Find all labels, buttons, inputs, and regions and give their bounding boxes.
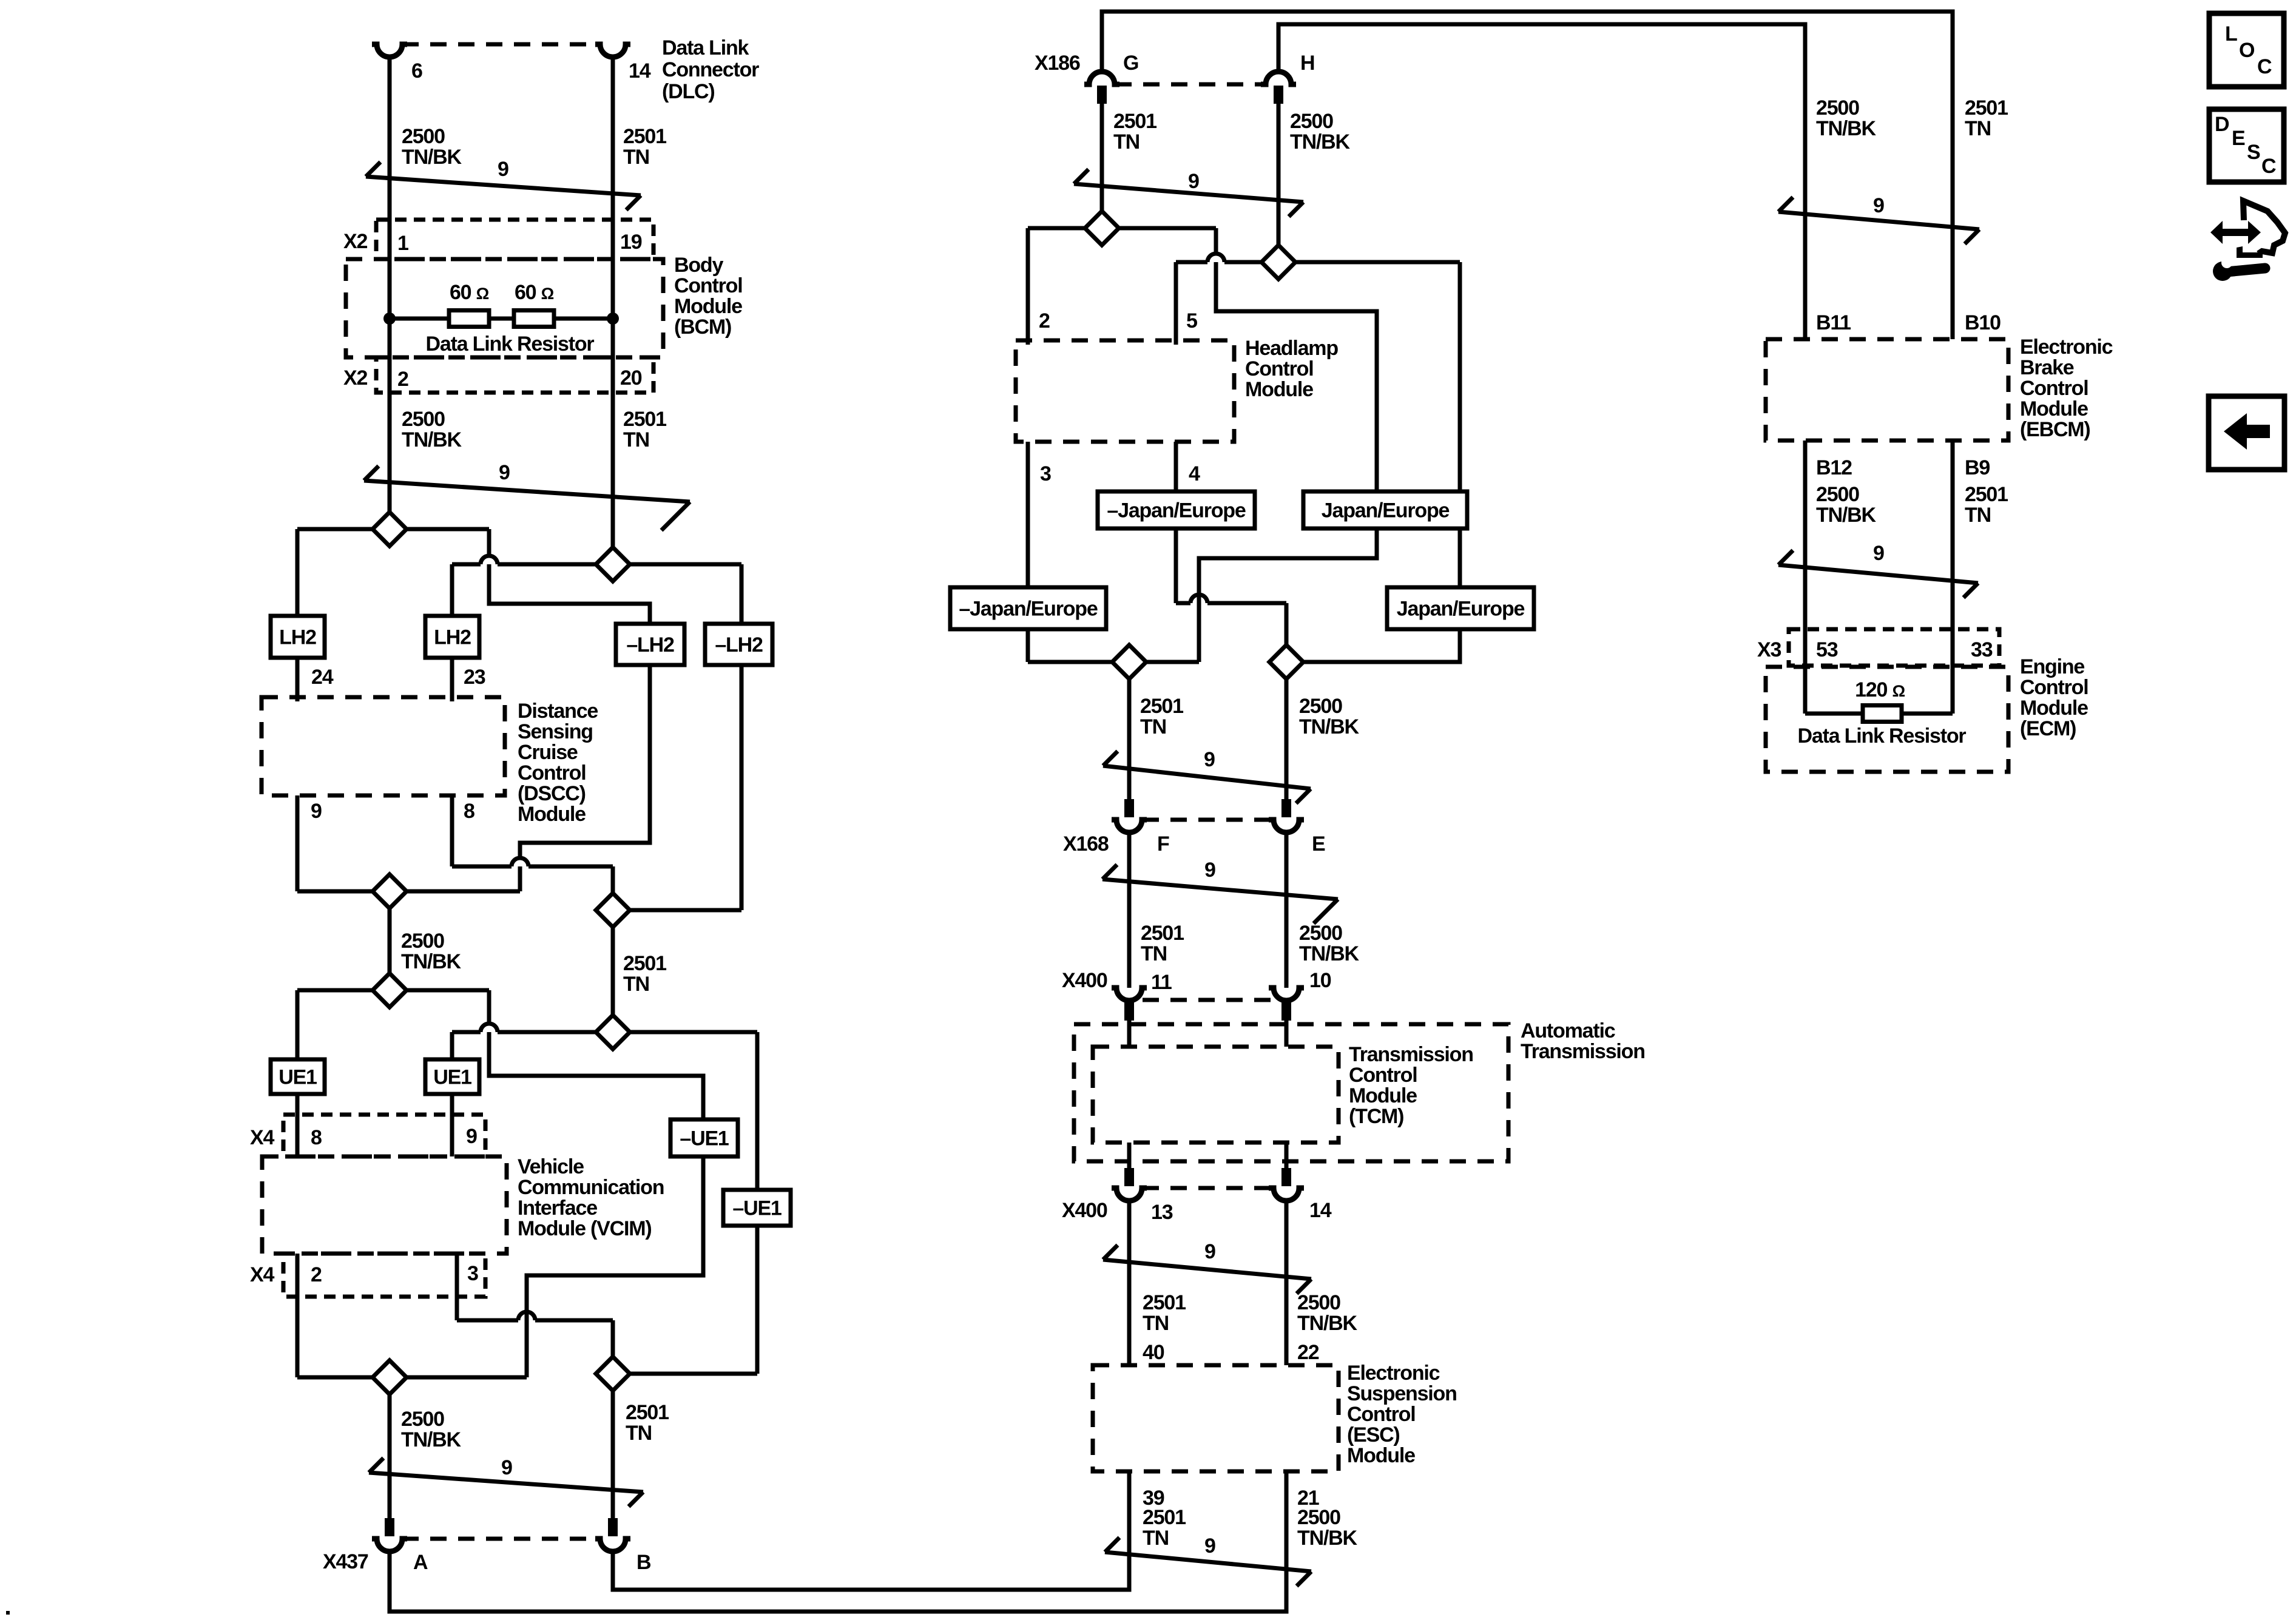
svg-text:L: L [2225,22,2237,46]
svg-text:2500: 2500 [401,930,444,953]
svg-text:9: 9 [498,158,508,181]
svg-text:9: 9 [311,800,322,823]
svg-text:X437: X437 [323,1550,368,1573]
svg-text:Module: Module [1349,1084,1417,1107]
svg-text:23: 23 [464,666,485,689]
svg-text:8: 8 [311,1126,322,1149]
svg-text:Body: Body [674,254,723,277]
svg-text:O: O [2239,39,2255,62]
svg-text:(BCM): (BCM) [674,316,731,339]
svg-text:Transmission: Transmission [1349,1043,1473,1066]
svg-text:–UE1: –UE1 [732,1197,782,1220]
svg-text:3: 3 [467,1262,478,1285]
svg-text:X2: X2 [343,366,367,390]
svg-text:Module: Module [518,803,586,826]
svg-text:20: 20 [620,366,642,390]
svg-text:TN/BK: TN/BK [1290,130,1351,154]
svg-text:40: 40 [1143,1341,1164,1364]
svg-text:2500: 2500 [402,408,445,431]
svg-text:TN/BK: TN/BK [1297,1312,1358,1335]
svg-text:X168: X168 [1063,832,1109,856]
svg-text:19: 19 [620,231,642,254]
svg-text:14: 14 [629,59,651,83]
svg-text:TN/BK: TN/BK [1299,942,1360,965]
svg-text:TN: TN [1965,504,1991,527]
svg-text:Automatic: Automatic [1521,1019,1615,1042]
svg-text:B9: B9 [1965,456,1990,479]
svg-text:Connector: Connector [662,58,759,81]
svg-text:G: G [1123,52,1138,75]
svg-text:X400: X400 [1062,1199,1107,1222]
svg-text:TN: TN [623,146,649,169]
svg-text:X3: X3 [1757,638,1781,661]
svg-text:2501: 2501 [626,1401,669,1424]
svg-text:Electronic: Electronic [2020,336,2113,359]
svg-text:X4: X4 [250,1263,274,1286]
svg-text:TN/BK: TN/BK [401,950,462,973]
svg-text:(ECM): (ECM) [2020,717,2076,740]
svg-text:8: 8 [464,800,474,823]
svg-text:2501: 2501 [623,125,666,148]
svg-text:D: D [2215,113,2229,136]
svg-text:Headlamp: Headlamp [1245,337,1338,360]
svg-text:TN/BK: TN/BK [402,146,462,169]
svg-text:60 Ω: 60 Ω [450,281,489,304]
svg-text:14: 14 [1309,1199,1332,1222]
svg-text:–Japan/Europe: –Japan/Europe [1107,499,1245,522]
svg-text:B12: B12 [1816,456,1852,479]
svg-text:Control: Control [2020,676,2088,699]
svg-text:TN: TN [1965,117,1991,140]
svg-text:3: 3 [1040,462,1051,485]
svg-text:X2: X2 [343,230,367,253]
svg-text:9: 9 [1204,1534,1215,1558]
svg-text:2501: 2501 [1140,695,1183,718]
svg-text:9: 9 [1188,170,1199,193]
svg-text:Sensing: Sensing [518,720,593,743]
svg-text:TN: TN [1143,1312,1169,1335]
svg-text:2501: 2501 [623,952,666,975]
svg-text:1: 1 [397,232,408,255]
svg-text:A: A [413,1551,428,1574]
svg-text:60 Ω: 60 Ω [515,281,554,304]
svg-text:TN: TN [626,1422,652,1445]
svg-text:Communication: Communication [518,1176,664,1199]
svg-text:Japan/Europe: Japan/Europe [1322,499,1450,522]
svg-text:E: E [2232,127,2245,150]
svg-text:LH2: LH2 [279,626,316,649]
svg-text:TN: TN [623,428,649,451]
svg-text:TN/BK: TN/BK [1299,715,1360,738]
svg-text:9: 9 [1873,542,1884,565]
svg-text:TN: TN [1143,1527,1169,1550]
svg-text:2500: 2500 [1816,483,1859,506]
svg-text:X186: X186 [1035,52,1080,75]
svg-text:UE1: UE1 [433,1066,471,1089]
svg-text:Distance: Distance [518,700,598,723]
svg-text:Control: Control [1347,1403,1415,1426]
svg-text:5: 5 [1186,309,1197,333]
svg-text:Control: Control [1245,357,1313,380]
svg-text:Engine: Engine [2020,655,2084,678]
svg-text:9: 9 [501,1456,512,1479]
svg-text:2500: 2500 [1297,1506,1340,1529]
svg-text:Control: Control [518,761,586,785]
svg-text:E: E [1312,832,1325,856]
svg-text:Data Link: Data Link [662,36,749,59]
svg-text:Module: Module [2020,697,2088,720]
svg-text:2: 2 [397,368,408,391]
svg-text:Control: Control [674,274,742,297]
svg-text:4: 4 [1189,462,1200,485]
svg-text:Data Link Resistor: Data Link Resistor [1798,724,1967,748]
svg-text:Cruise: Cruise [518,741,578,764]
svg-text:Interface: Interface [518,1197,597,1220]
svg-text:–LH2: –LH2 [715,633,763,657]
svg-text:24: 24 [311,666,334,689]
svg-text:Japan/Europe: Japan/Europe [1397,598,1525,621]
svg-text:(DSCC): (DSCC) [518,782,586,805]
svg-text:2: 2 [311,1263,322,1286]
svg-text:9: 9 [1204,1240,1215,1263]
svg-text:F: F [1157,832,1169,856]
svg-text:–LH2: –LH2 [626,633,674,657]
svg-text:11: 11 [1151,971,1172,994]
svg-text:Module: Module [2020,397,2088,420]
svg-text:2500: 2500 [1297,1291,1340,1314]
svg-text:TN: TN [1141,942,1167,965]
svg-text:33: 33 [1971,638,1993,661]
svg-text:2501: 2501 [1113,110,1156,133]
svg-text:2500: 2500 [1816,96,1859,120]
svg-text:TN: TN [1113,130,1140,154]
svg-text:9: 9 [1204,748,1215,771]
svg-text:S: S [2247,141,2260,164]
svg-text:10: 10 [1309,969,1331,992]
svg-text:Brake: Brake [2020,356,2074,379]
svg-text:2501: 2501 [1143,1291,1186,1314]
svg-text:6: 6 [411,59,422,83]
svg-text:2501: 2501 [1141,922,1184,945]
svg-text:(ESC): (ESC) [1347,1423,1400,1447]
svg-text:TN/BK: TN/BK [402,428,462,451]
svg-text:Transmission: Transmission [1521,1040,1645,1063]
svg-text:Module: Module [1245,378,1313,401]
svg-text:9: 9 [1204,859,1215,882]
svg-text:2500: 2500 [1299,695,1342,718]
svg-text:9: 9 [466,1125,477,1148]
svg-text:C: C [2261,155,2276,178]
svg-text:TN/BK: TN/BK [401,1428,462,1451]
svg-text:X400: X400 [1062,969,1107,992]
svg-text:Data Link Resistor: Data Link Resistor [426,333,595,356]
svg-text:LH2: LH2 [434,626,471,649]
svg-text:Vehicle: Vehicle [518,1155,584,1178]
svg-text:–UE1: –UE1 [680,1127,729,1150]
svg-text:2501: 2501 [1143,1506,1186,1529]
svg-text:(TCM): (TCM) [1349,1105,1403,1128]
svg-text:B10: B10 [1965,311,2001,334]
svg-text:2500: 2500 [1290,110,1333,133]
svg-text:Module: Module [1347,1444,1415,1467]
svg-text:TN/BK: TN/BK [1297,1527,1358,1550]
svg-text:13: 13 [1151,1201,1173,1224]
svg-text:X4: X4 [250,1126,274,1149]
svg-text:(DLC): (DLC) [662,80,715,103]
svg-text:22: 22 [1297,1341,1319,1364]
svg-text:Control: Control [2020,377,2088,400]
svg-text:2500: 2500 [401,1408,444,1431]
svg-text:120 Ω: 120 Ω [1855,678,1905,701]
svg-text:B11: B11 [1816,311,1851,334]
svg-text:2500: 2500 [1299,922,1342,945]
svg-text:TN/BK: TN/BK [1816,117,1877,140]
svg-text:–Japan/Europe: –Japan/Europe [959,598,1097,621]
svg-text:Electronic: Electronic [1347,1362,1440,1385]
svg-text:2: 2 [1039,309,1050,333]
svg-text:2501: 2501 [1965,483,2008,506]
svg-text:2500: 2500 [402,125,445,148]
svg-text:Module: Module [674,295,742,318]
svg-text:UE1: UE1 [279,1066,317,1089]
svg-text:Control: Control [1349,1064,1417,1087]
svg-text:TN: TN [1140,715,1166,738]
svg-text:9: 9 [1873,194,1884,217]
svg-text:Suspension: Suspension [1347,1382,1457,1405]
svg-text:9: 9 [499,461,510,484]
svg-text:2501: 2501 [623,408,666,431]
svg-text:53: 53 [1816,638,1838,661]
svg-text:B: B [636,1551,651,1574]
svg-text:TN: TN [623,973,649,996]
svg-text:(EBCM): (EBCM) [2020,418,2090,441]
svg-text:TN/BK: TN/BK [1816,504,1877,527]
svg-text:H: H [1300,52,1314,75]
svg-text:Module (VCIM): Module (VCIM) [518,1217,651,1240]
svg-text:2501: 2501 [1965,96,2008,120]
svg-text:C: C [2257,55,2272,78]
